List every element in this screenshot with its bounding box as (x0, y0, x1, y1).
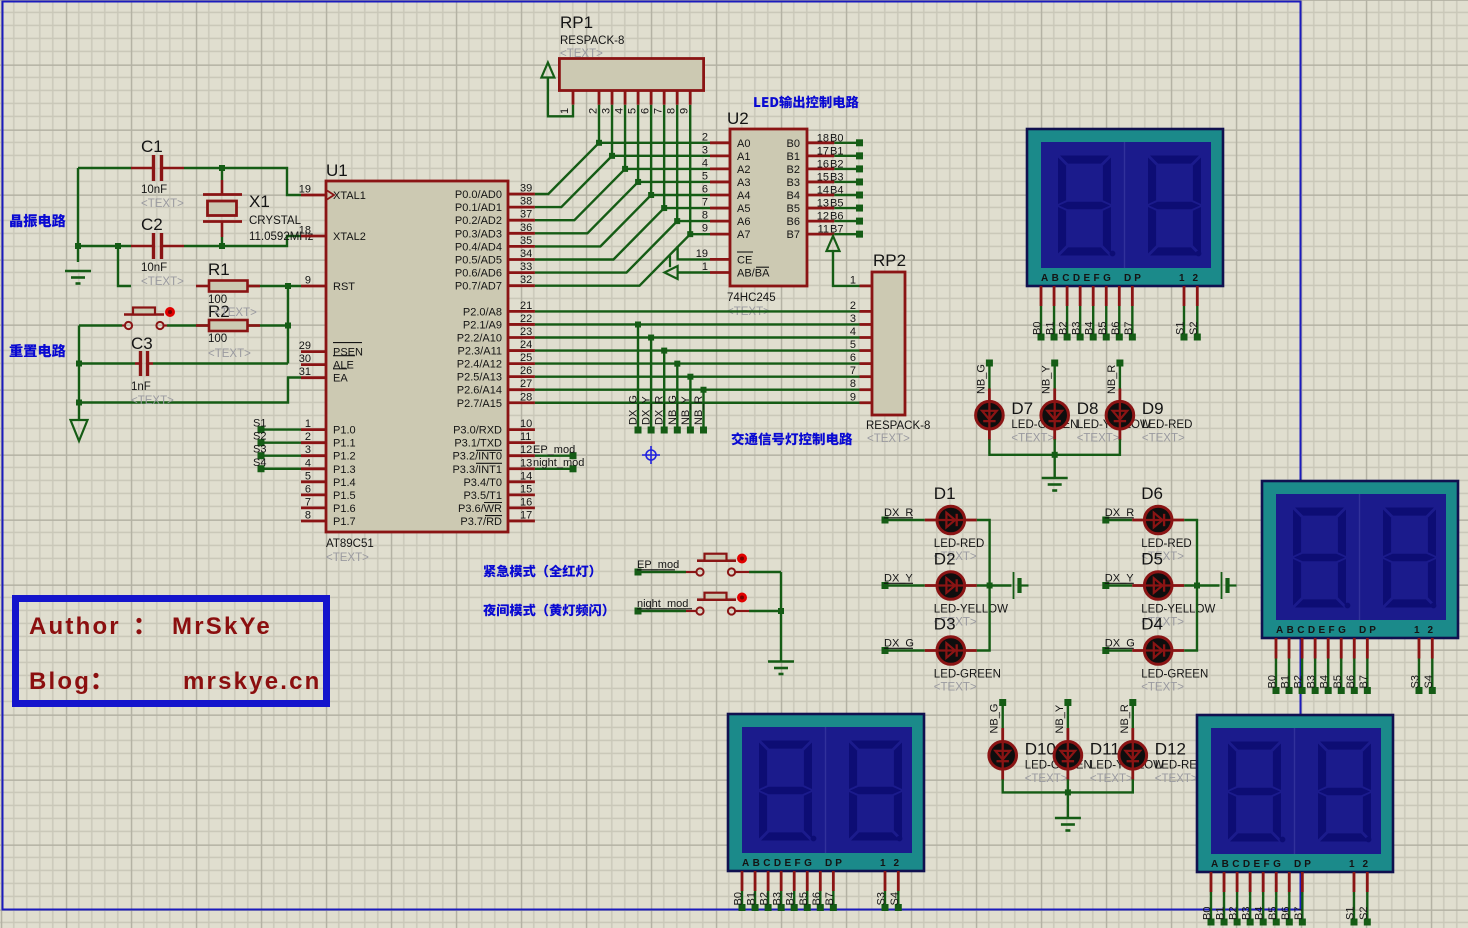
svg-text:S2: S2 (1358, 907, 1370, 920)
junction DX_G (635, 322, 641, 328)
svg-text:B4: B4 (787, 190, 800, 202)
svg-text:D4: D4 (1141, 615, 1163, 634)
pin B0 stub of 7-segment display DS2 (1275, 638, 1278, 659)
svg-text:D8: D8 (1077, 399, 1099, 418)
terminal B7 of 7-segment display DS1 (1129, 334, 1136, 341)
lead top D9 (1119, 389, 1122, 403)
svg-text:P2.1/A9: P2.1/A9 (463, 319, 502, 331)
svg-text:AT89C51: AT89C51 (326, 538, 374, 550)
svg-text:DX_G: DX_G (1105, 638, 1135, 650)
svg-text:35: 35 (520, 235, 532, 247)
terminal S3 (258, 452, 265, 459)
pin 3 P1.2 of U1 (301, 454, 326, 457)
lead left D4 (1132, 649, 1145, 652)
svg-text:B2: B2 (1228, 907, 1240, 920)
terminal night_mod (570, 465, 577, 472)
svg-text:B3: B3 (787, 177, 800, 189)
svg-text:ABCDEFG: ABCDEFG (1211, 859, 1284, 870)
microcontroller U1 AT89C51 body (326, 181, 508, 532)
svg-text:S1: S1 (1175, 322, 1187, 335)
svg-text:6: 6 (850, 352, 856, 364)
wire B5 from 7-segment display DS2 (1340, 659, 1342, 691)
svg-text:36: 36 (520, 222, 532, 234)
wire S3 from 7-segment display DS3 (884, 891, 886, 908)
terminal B6 of 7-segment display DS3 (817, 904, 824, 911)
wire night_mod to ground rail (749, 610, 781, 612)
svg-text:S4: S4 (1423, 675, 1435, 688)
pin 7 of RP2 (860, 375, 873, 378)
svg-text:B2: B2 (1293, 675, 1305, 688)
svg-text:5: 5 (627, 108, 639, 114)
svg-text:B1: B1 (1280, 675, 1292, 688)
label 重置电路 (10, 344, 66, 357)
terminal S3 of 7-segment display DS2 (1416, 687, 1423, 694)
svg-text:B3: B3 (830, 171, 843, 183)
capacitor C3 (135, 351, 153, 376)
terminal B6 of 7-segment display DS2 (1351, 687, 1358, 694)
svg-text:A5: A5 (737, 203, 750, 215)
resistor pack RP1 body (559, 59, 703, 91)
wire net left vertical C1-C2-gnd (77, 168, 79, 262)
svg-text:10: 10 (520, 418, 532, 430)
wire net X1 bottom link (221, 237, 223, 246)
lead right D5 (1171, 584, 1184, 587)
pin 8 A6 of U2 (710, 220, 730, 223)
svg-text:D7: D7 (1011, 399, 1033, 418)
svg-text:B2: B2 (759, 892, 771, 905)
7-segment display DS3 (728, 714, 924, 871)
svg-text:DP: DP (1359, 625, 1379, 636)
svg-text:P3.5/T1: P3.5/T1 (463, 490, 502, 502)
junction cathode D2 (987, 583, 993, 589)
svg-text:7: 7 (850, 365, 856, 377)
pin S4 stub of 7-segment display DS2 (1431, 638, 1434, 659)
terminal S4 (258, 465, 265, 472)
underline DX_Y D2 (884, 582, 913, 584)
pin 1 of RP2 (860, 284, 873, 287)
pin S3 stub of 7-segment display DS3 (884, 871, 887, 891)
junction NB_R (701, 387, 707, 393)
svg-text:<TEXT>: <TEXT> (141, 276, 184, 288)
wire P2.6 to RP2 pin 8 (535, 389, 860, 391)
pin 32 P0.7/AD7 of U1 (508, 284, 535, 287)
terminal B5 of 7-segment display DS4 (1273, 919, 1280, 926)
svg-text:1: 1 (559, 108, 571, 114)
terminal NB_Y (687, 427, 694, 434)
svg-text:74HC245: 74HC245 (727, 292, 776, 304)
svg-text:5: 5 (850, 339, 856, 351)
wire B4 net (834, 194, 859, 196)
svg-text:39: 39 (520, 183, 532, 195)
terminal S2 of 7-segment display DS1 (1194, 334, 1201, 341)
wire B1 from 7-segment display DS2 (1288, 659, 1290, 691)
power arrow ABBA (665, 266, 678, 279)
wire mode ground vertical (780, 572, 782, 661)
terminal S4 of 7-segment display DS2 (1429, 687, 1436, 694)
wire cathode rail D6-D4 (1184, 520, 1197, 651)
capacitor C2 (131, 233, 184, 259)
resistor R1 (196, 281, 260, 292)
terminal B5 of 7-segment display DS2 (1338, 687, 1345, 694)
svg-text:B6: B6 (787, 216, 800, 228)
svg-text:3: 3 (702, 144, 708, 156)
pin 19 XTAL1 of U1 (301, 194, 326, 197)
wire S2 to U1 (261, 441, 301, 443)
svg-text:5: 5 (702, 170, 708, 182)
LED D12 (1119, 742, 1147, 770)
pin 34 P0.5/AD5 of U1 (508, 258, 535, 261)
svg-text:P1.4: P1.4 (333, 477, 356, 489)
svg-text:S3: S3 (876, 892, 888, 905)
junction cathode D5 (1194, 583, 1200, 589)
svg-text:EA: EA (333, 373, 348, 385)
pin S3 stub of 7-segment display DS2 (1418, 638, 1421, 659)
wire net left vertical button-C3-bottom (78, 326, 80, 421)
lead bottom D10 (1001, 768, 1004, 780)
lead bottom D8 (1053, 428, 1056, 440)
pin B4 stub of 7-segment display DS1 (1092, 286, 1095, 306)
overline WR (484, 502, 502, 504)
svg-text:CRYSTAL: CRYSTAL (249, 215, 302, 227)
pin 39 P0.0/AD0 of U1 (508, 193, 535, 196)
underline DX_Y D5 (1105, 582, 1134, 584)
wire S3 to U1 (261, 455, 301, 457)
svg-text:B7: B7 (787, 229, 800, 241)
wire B4 from 7-segment display DS3 (793, 891, 795, 908)
wire B7 net (834, 233, 859, 235)
svg-text:P1.7: P1.7 (333, 516, 356, 528)
wire RP1 pin 6 vertical (650, 105, 652, 195)
wire P0.3 to RP1/U2 bus (535, 182, 710, 233)
svg-text:B1: B1 (1215, 907, 1227, 920)
terminal B2 of 7-segment display DS4 (1234, 919, 1241, 926)
svg-text:B7: B7 (824, 892, 836, 905)
terminal NB_G (674, 427, 681, 434)
pin 24 P2.3/A11 of U1 (508, 349, 535, 352)
pin 18 B0 of U2 (807, 141, 834, 144)
svg-text:S1: S1 (253, 418, 266, 430)
capacitor C1 (131, 155, 184, 181)
pin 5 of RP1 (637, 91, 640, 105)
wire RP1 pin 3 vertical (611, 105, 613, 156)
LED D4 (1144, 637, 1172, 665)
pin 28 P2.7/A15 of U1 (508, 401, 535, 404)
svg-text:17: 17 (817, 145, 829, 157)
overline INT0 (476, 449, 502, 451)
wire B1 from 7-segment display DS4 (1223, 892, 1225, 922)
svg-text:24: 24 (520, 339, 532, 351)
svg-text:10nF: 10nF (141, 184, 167, 196)
svg-text:19: 19 (696, 248, 708, 260)
pin 4 A2 of U2 (710, 167, 730, 170)
svg-text:P3.7/RD: P3.7/RD (460, 516, 502, 528)
svg-text:night_mod: night_mod (533, 457, 584, 469)
wire B5 from 7-segment display DS4 (1275, 892, 1277, 922)
svg-text:P0.7/AD7: P0.7/AD7 (455, 281, 502, 293)
svg-text:2: 2 (588, 108, 600, 114)
svg-text:S2: S2 (1188, 322, 1200, 335)
svg-text:RESPACK-8: RESPACK-8 (560, 35, 624, 47)
terminal DX_Y (648, 427, 655, 434)
svg-text:S4: S4 (253, 457, 266, 469)
underline DX_R D1 (884, 517, 913, 519)
wire net C2 row left (78, 245, 131, 247)
svg-text:A7: A7 (737, 229, 750, 241)
svg-text:NB_Y: NB_Y (1054, 704, 1066, 733)
terminal B5 (856, 205, 863, 212)
overline CE (737, 251, 753, 253)
svg-text:B5: B5 (787, 203, 800, 215)
wire P2.0 to RP2 pin 2 (535, 310, 860, 312)
pin 2 P1.1 of U1 (301, 441, 326, 444)
terminal NB_Y D8 (1051, 360, 1058, 367)
svg-text:B3: B3 (1241, 907, 1253, 920)
svg-text:2: 2 (850, 300, 856, 312)
svg-text:D12: D12 (1155, 739, 1186, 758)
svg-text:1: 1 (850, 274, 856, 286)
pin 4 of RP1 (624, 91, 627, 105)
svg-text:<TEXT>: <TEXT> (1155, 773, 1198, 785)
svg-text:ABCDEFG: ABCDEFG (742, 858, 815, 869)
7-segment display DS2 (1262, 481, 1458, 638)
wire NB_Y link D11 (1067, 703, 1069, 729)
wire NB_G link D10 (1002, 703, 1004, 729)
pin 36 P0.3/AD3 of U1 (508, 232, 535, 235)
wire B0 from 7-segment display DS2 (1275, 659, 1277, 691)
pin B7 stub of 7-segment display DS3 (832, 871, 835, 891)
pin S2 stub of 7-segment display DS1 (1196, 286, 1199, 306)
svg-text:B4: B4 (1254, 907, 1266, 920)
pin 1 P1.0 of U1 (301, 428, 326, 431)
terminal B0 (856, 139, 863, 146)
svg-text:PSEN: PSEN (333, 347, 363, 359)
svg-text:14: 14 (817, 185, 829, 197)
svg-text:B1: B1 (1045, 322, 1057, 335)
svg-text:P0.5/AD5: P0.5/AD5 (455, 255, 502, 267)
label 夜间模式（黄灯频闪） (483, 604, 606, 617)
svg-text:S3: S3 (1410, 675, 1422, 688)
wire night_mod wire (638, 610, 686, 612)
svg-text:S4: S4 (889, 892, 901, 905)
svg-text:P2.7/A15: P2.7/A15 (457, 398, 502, 410)
terminal DX_Y D2 (882, 582, 889, 589)
svg-text:5: 5 (305, 470, 311, 482)
svg-text:B5: B5 (798, 892, 810, 905)
svg-text:LED-RED: LED-RED (1141, 538, 1191, 550)
wire net RST row R1 right (248, 285, 301, 287)
pin B3 stub of 7-segment display DS3 (780, 871, 783, 891)
svg-text:A6: A6 (737, 216, 750, 228)
wire RP1 pin 4 vertical (624, 105, 626, 169)
terminal B1 of 7-segment display DS4 (1221, 919, 1228, 926)
pin 17 B1 of U2 (807, 154, 834, 157)
svg-text:1: 1 (305, 418, 311, 430)
wire S1 from 7-segment display DS4 (1353, 892, 1355, 922)
origin marker (642, 446, 660, 464)
terminal DX_R D6 (1102, 517, 1109, 524)
svg-text:P3.3/INT1: P3.3/INT1 (452, 464, 502, 476)
svg-text:B2: B2 (787, 164, 800, 176)
terminal B1 of 7-segment display DS3 (752, 904, 759, 911)
svg-text:B5: B5 (1267, 907, 1279, 920)
svg-text:P0.3/AD3: P0.3/AD3 (455, 228, 502, 240)
pin B7 stub of 7-segment display DS1 (1131, 286, 1134, 306)
terminal S1 of 7-segment display DS4 (1351, 919, 1358, 926)
svg-text:DX_G: DX_G (884, 638, 914, 650)
wire B6 net (834, 220, 859, 222)
svg-text:<TEXT>: <TEXT> (1142, 433, 1185, 445)
pin 11 B7 of U2 (807, 233, 834, 236)
wire net EA wire (79, 378, 301, 403)
wire B0 net (834, 142, 859, 144)
wire cathode mid link D2 (977, 584, 1012, 586)
svg-text:C1: C1 (141, 137, 163, 156)
terminal S4 of 7-segment display DS3 (895, 904, 902, 911)
svg-text:B6: B6 (1110, 322, 1122, 335)
wire CE wire (678, 246, 710, 259)
pin 19 CE of U2 (710, 258, 730, 261)
ground arrow reset (71, 420, 88, 441)
overline RD (485, 515, 502, 517)
pin 8 P1.7 of U1 (301, 520, 326, 523)
pin B6 stub of 7-segment display DS3 (819, 871, 822, 891)
pin 2 A0 of U2 (710, 141, 730, 144)
wire DX_G drop (637, 325, 639, 431)
svg-text:A2: A2 (737, 164, 750, 176)
terminal B1 of 7-segment display DS2 (1286, 687, 1293, 694)
svg-text:P0.0/AD0: P0.0/AD0 (455, 189, 502, 201)
svg-text:B0: B0 (1267, 675, 1279, 688)
svg-text:C3: C3 (131, 334, 153, 353)
svg-text:EP_mod: EP_mod (637, 559, 679, 571)
svg-text:DP: DP (1124, 273, 1144, 284)
pin 4 P1.3 of U1 (301, 467, 326, 470)
terminal B0 of 7-segment display DS2 (1273, 687, 1280, 694)
junction RST/R2 (285, 323, 291, 329)
svg-text:14: 14 (520, 470, 532, 482)
svg-text:<TEXT>: <TEXT> (141, 198, 184, 210)
svg-text:18: 18 (299, 225, 311, 237)
wire P2.3 to RP2 pin 5 (535, 349, 860, 351)
svg-text:11: 11 (818, 224, 829, 236)
wire B1 from 7-segment display DS3 (754, 891, 756, 908)
svg-text:7: 7 (305, 496, 311, 508)
LED D6 (1144, 506, 1172, 534)
junction NB_Y (687, 374, 693, 380)
wire B0 from 7-segment display DS4 (1210, 892, 1212, 922)
terminal B4 of 7-segment display DS1 (1090, 334, 1097, 341)
lead bottom D9 (1119, 428, 1122, 440)
svg-text:NB_Y: NB_Y (1041, 365, 1053, 394)
svg-text:<TEXT>: <TEXT> (867, 433, 910, 445)
wire DX_Y to D5 (1106, 584, 1132, 586)
svg-text:38: 38 (520, 196, 532, 208)
wire B5 from 7-segment display DS1 (1105, 306, 1107, 337)
wire net C1 row right of C1 (184, 168, 301, 195)
svg-text:NB_G: NB_G (975, 364, 987, 394)
pin 22 P2.1/A9 of U1 (508, 323, 535, 326)
pin 3 A1 of U2 (710, 154, 730, 157)
wire S4 to U1 (261, 468, 301, 470)
svg-text:A1: A1 (737, 151, 750, 163)
wire P0.1 to RP1/U2 bus (535, 156, 710, 207)
wire S1 to U1 (261, 428, 301, 430)
pin B4 stub of 7-segment display DS2 (1327, 638, 1330, 659)
wire P0.0 to RP1/U2 bus (535, 143, 710, 194)
pin 6 of RP1 (650, 91, 653, 105)
pin 16 P3.6/WR of U1 (508, 506, 535, 509)
wire P2.2 to RP2 pin 4 (535, 336, 860, 338)
battery D2 (1014, 572, 1029, 599)
svg-text:D3: D3 (934, 615, 956, 634)
terminal NB_G D10 (999, 699, 1006, 706)
terminal B6 of 7-segment display DS1 (1116, 334, 1123, 341)
wire DX_R to D1 (885, 519, 925, 521)
pin 1 of RP1 (572, 91, 575, 105)
terminal night_mod (635, 608, 642, 615)
pin B5 stub of 7-segment display DS3 (806, 871, 809, 891)
underline DX_R D6 (1105, 517, 1134, 519)
svg-text:2: 2 (702, 131, 708, 143)
wire NB_R drop (702, 390, 704, 430)
svg-text:15: 15 (817, 171, 829, 183)
wire B4 from 7-segment display DS4 (1262, 892, 1264, 922)
wire RP1 pin 2 vertical (598, 105, 600, 143)
junction RP1 pin 4 / A2 (622, 166, 628, 172)
label 紧急模式（全红灯） (483, 565, 593, 578)
svg-text:RP1: RP1 (560, 13, 593, 32)
svg-text:DX_Y: DX_Y (641, 396, 653, 425)
wire net C3 row (79, 362, 135, 364)
junction RP1 pin 3 / A1 (609, 153, 615, 159)
svg-text:19: 19 (299, 184, 311, 196)
wire B4 from 7-segment display DS2 (1327, 659, 1329, 691)
lead top D8 (1053, 389, 1056, 403)
svg-text:S1: S1 (1345, 907, 1357, 920)
wire DX_R to D6 (1106, 519, 1132, 521)
pin B5 stub of 7-segment display DS4 (1275, 872, 1278, 892)
svg-text:B2: B2 (830, 158, 843, 170)
svg-text:LED-RED: LED-RED (934, 538, 984, 550)
svg-text:25: 25 (520, 352, 532, 364)
svg-text:<TEXT>: <TEXT> (934, 682, 977, 694)
junction RP1 pin 2 / A0 (596, 140, 602, 146)
pin 9 A7 of U2 (710, 233, 730, 236)
svg-text:<TEXT>: <TEXT> (1011, 433, 1054, 445)
pin 11 P3.1/TXD of U1 (508, 441, 535, 444)
svg-text:<TEXT>: <TEXT> (131, 395, 174, 407)
svg-text:B0: B0 (1202, 907, 1214, 920)
svg-text:U2: U2 (727, 109, 749, 128)
pin B4 stub of 7-segment display DS4 (1262, 872, 1265, 892)
svg-text:DX_Y: DX_Y (1105, 573, 1134, 585)
svg-text:D11: D11 (1090, 739, 1120, 758)
wire P2.7 to RP2 pin 9 (535, 402, 860, 404)
svg-text:B3: B3 (1071, 322, 1083, 335)
svg-text:DX_G: DX_G (628, 395, 640, 425)
pin 10 P3.0/RXD of U1 (508, 428, 535, 431)
pin B7 stub of 7-segment display DS4 (1301, 872, 1304, 892)
svg-text:B4: B4 (1084, 322, 1096, 335)
svg-text:AB/BA: AB/BA (737, 268, 770, 280)
svg-text:26: 26 (520, 365, 532, 377)
pin B1 stub of 7-segment display DS1 (1053, 286, 1056, 306)
lead left D2 (925, 584, 938, 587)
svg-text:U1: U1 (326, 161, 348, 180)
terminal DX_R D1 (882, 517, 889, 524)
wire B7 from 7-segment display DS4 (1301, 892, 1303, 922)
wire S3 from 7-segment display DS2 (1418, 659, 1420, 691)
